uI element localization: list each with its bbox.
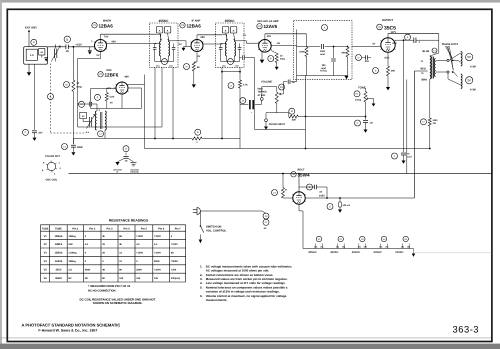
ground tone wiper [372, 104, 376, 107]
speaker ref SP2 [466, 77, 473, 84]
svg-text:A: A [225, 30, 227, 33]
phase dot pointer lines [446, 47, 454, 71]
svg-text:†1000: †1000 [154, 235, 161, 238]
wire long B- rail [69, 173, 492, 175]
wire AVC feed [78, 126, 163, 128]
control ref R1 [279, 84, 285, 90]
svg-text:5.6K: 5.6K [110, 96, 115, 99]
svg-text:†250: †250 [171, 268, 177, 271]
fuse / pilot lamp symbol [339, 202, 342, 207]
ground V4 cathode [260, 60, 265, 64]
wire V5 cathode [387, 52, 389, 66]
svg-text:IF AMP: IF AMP [192, 19, 201, 22]
speaker SP2 [454, 72, 458, 77]
capacitor .047 [32, 130, 37, 132]
wire to V4 grid net [296, 76, 298, 82]
svg-text:TUBE: TUBE [42, 228, 49, 231]
svg-text:(A): (A) [401, 245, 404, 248]
resistor 10 meg V4 [275, 53, 278, 62]
wire AVC to bus [72, 92, 74, 145]
svg-text:TONE: TONE [358, 86, 366, 90]
resistor 4.7K [239, 80, 242, 88]
svg-text:22K: 22K [292, 118, 297, 121]
svg-text:RECT: RECT [297, 169, 304, 172]
wire IF2 return down [239, 67, 241, 80]
ref F bias cap [392, 153, 398, 159]
ground phono [264, 127, 268, 130]
wire V1 screen up [100, 34, 102, 39]
svg-text:R: R [197, 131, 199, 134]
wire IF1 sec out [168, 40, 186, 42]
on-off switch blade [200, 226, 203, 233]
wire V3 plate to IF2 [203, 43, 222, 45]
winding primary [159, 42, 160, 57]
capacitor 22MF [71, 144, 76, 146]
wire IF2 bus tie [222, 71, 240, 73]
volume input terminal [260, 98, 263, 101]
wire to pot top [262, 86, 277, 88]
svg-text:†500K: †500K [171, 260, 178, 263]
wire V3 cathode [196, 52, 198, 62]
scan artifact line [415, 252, 492, 254]
svg-text:500K: 500K [85, 268, 91, 271]
svg-text:10k: 10k [154, 277, 159, 280]
svg-text:0V: 0V [97, 54, 100, 57]
wire IF2 sec out [234, 40, 246, 42]
tube V4 12AV6 det-avc-af [259, 40, 272, 53]
ref B rect bypass [307, 184, 313, 190]
svg-text:†1000: †1000 [136, 235, 143, 238]
svg-text:RESISTANCE READINGS: RESISTANCE READINGS [109, 219, 149, 223]
wire IF1 right down to bus [172, 67, 174, 138]
svg-text:NC NO CONNECTION: NC NO CONNECTION [88, 290, 116, 293]
svg-text:12VAC: 12VAC [395, 251, 403, 254]
wire plate into IF2 [221, 43, 223, 46]
dashed gang link [50, 64, 52, 134]
volume potentiometer 500K [275, 92, 278, 103]
wire AVC bypass vertical [34, 64, 36, 130]
svg-text:AT 60K: AT 60K [258, 94, 266, 97]
svg-text:1.5: 1.5 [30, 54, 34, 57]
wire screen bypass [395, 39, 414, 41]
svg-text:(A): (A) [342, 245, 345, 248]
svg-text:12BF6: 12BF6 [55, 243, 63, 246]
ref P 10 meg [268, 56, 274, 62]
ground V3 grid return [182, 48, 186, 51]
ref M [64, 82, 70, 88]
speaker 1 voice coil [461, 52, 462, 67]
svg-text:Pin 2: Pin 2 [89, 228, 96, 231]
capacitor .1 screen [413, 37, 415, 43]
svg-text:455KC: 455KC [225, 19, 236, 23]
ref A filter [322, 25, 328, 31]
wire V4 cathode [261, 51, 263, 59]
heater string bus [303, 248, 414, 250]
ref G line bypass [123, 146, 129, 152]
ground pilot [338, 210, 342, 213]
color dot alignment circle [47, 162, 55, 170]
wire cap to terminal [255, 104, 262, 106]
svg-text:mmf: mmf [321, 67, 326, 70]
svg-text:0V: 0V [373, 43, 376, 46]
svg-text:0V: 0V [198, 55, 201, 58]
wire grid cap to V1 [68, 46, 94, 48]
svg-text:TAPPED: TAPPED [258, 91, 267, 94]
svg-text:A: A [233, 30, 235, 33]
ref B grid cap [64, 36, 70, 42]
capacitor 1000 mmf [320, 44, 322, 49]
ref 12 [421, 119, 427, 125]
svg-text:D: D [358, 56, 360, 59]
ground chassis B- [115, 162, 119, 165]
wire osc coil to bus [104, 130, 106, 139]
svg-text:-1V: -1V [178, 43, 182, 46]
wire return rail [406, 80, 408, 174]
wire V4 plate to filter [265, 33, 307, 35]
tube V1 12BA6 mixer [95, 40, 107, 52]
svg-text:-: - [251, 110, 252, 114]
wire screen into IF1 [160, 34, 162, 41]
svg-text:0V: 0V [110, 101, 113, 104]
svg-text:12BA6: 12BA6 [99, 23, 114, 28]
wire AC line [200, 210, 262, 212]
svg-text:80V: 80V [393, 42, 398, 45]
resistor 50K filter [346, 47, 349, 57]
wire AC to surge resistor [282, 174, 284, 188]
wire heater stub V3 [358, 244, 360, 249]
svg-text:130: 130 [136, 277, 141, 280]
svg-text:10Meg: 10Meg [68, 235, 76, 238]
svg-text:-4.5V: -4.5V [75, 44, 82, 47]
wire heater stub V1 [315, 244, 317, 249]
ref A pilot [327, 204, 333, 210]
heater ref V4 [381, 236, 386, 241]
ref can coil [228, 59, 234, 65]
wire V3 screen up [196, 35, 198, 40]
ref 17 4.7K [228, 83, 234, 89]
wire secondary top [436, 59, 447, 61]
svg-text:†1000: †1000 [171, 243, 178, 246]
capacitor .002 [364, 55, 366, 60]
svg-text:(A): (A) [321, 245, 324, 248]
svg-text:98V: 98V [125, 76, 130, 79]
heater ref V5 [403, 236, 408, 241]
resistor 1000 ohm 1W B+ filter [428, 118, 431, 126]
wire phono tap [265, 113, 267, 119]
wire V5 plate to output transformer [388, 33, 439, 35]
oscillator coil winding 2 [105, 111, 106, 130]
wire tap line [266, 112, 289, 114]
ref can coil [162, 59, 168, 65]
svg-text:G: G [125, 148, 127, 151]
svg-text:12BF6: 12BF6 [105, 72, 119, 77]
phono input terminal [265, 119, 268, 122]
wire to 250mmf cap [333, 47, 335, 59]
capacitor 50MF audio coupling [249, 100, 251, 109]
svg-text:1meg: 1meg [355, 99, 362, 102]
svg-text:-1V: -1V [243, 34, 247, 37]
svg-text:.002: .002 [364, 60, 369, 63]
wire can bottom rail [221, 61, 240, 63]
svg-text:1000: 1000 [433, 119, 439, 122]
wire IF1 down to bus [154, 67, 156, 138]
ref N cathode [184, 64, 190, 70]
ground bypass [33, 138, 37, 141]
svg-text:90V: 90V [112, 41, 117, 44]
wiper arrow [279, 93, 283, 95]
svg-text:6.: 6. [200, 294, 203, 298]
svg-text:Pin 4: Pin 4 [124, 228, 131, 231]
capacitor .05 grid [65, 45, 67, 50]
svg-text:1000: 1000 [320, 50, 326, 53]
svg-text:89VAC: 89VAC [309, 251, 317, 254]
resistor 100K filter [305, 47, 308, 57]
wire screen into IF2 [222, 34, 227, 36]
svg-text:180K: 180K [136, 268, 142, 271]
svg-text:180: 180 [391, 70, 396, 73]
svg-text:(A): (A) [336, 245, 339, 248]
heater ref V2 [338, 236, 343, 241]
svg-text:(A): (A) [315, 245, 318, 248]
ground 10 meg [275, 67, 279, 70]
wire AF line to tone [298, 116, 366, 118]
ground V3 cathode [192, 84, 196, 87]
ref C tone cap [355, 120, 361, 126]
svg-text:1AH: 1AH [235, 65, 239, 68]
trimmer A3a [156, 27, 163, 34]
svg-text:500K: 500K [258, 87, 264, 90]
tube V2 12BF6 oscillator [116, 82, 128, 94]
resistor 5.6K osc [105, 93, 108, 102]
capacitor right lead [239, 44, 241, 48]
svg-text:† MEASURED FROM PIN 7 OF V6: † MEASURED FROM PIN 7 OF V6 [88, 285, 131, 288]
svg-text:†1000: †1000 [154, 252, 161, 255]
wire filter [297, 46, 307, 48]
speaker 2 voice coil [461, 74, 462, 89]
svg-text:N: N [186, 65, 188, 68]
svg-text:4"SP: 4"SP [470, 88, 476, 91]
ground antenna trimmer [44, 59, 48, 62]
scan edge strips [0, 0, 500, 3]
resistor 180 ohm cathode [387, 66, 390, 76]
svg-text:Pin 5: Pin 5 [141, 228, 148, 231]
AC line plug [193, 209, 197, 211]
wire cathode to osc [78, 58, 101, 60]
ref C bypass [23, 129, 29, 135]
svg-text:Pin 1: Pin 1 [72, 228, 79, 231]
svg-text:40VAC: 40VAC [352, 251, 360, 254]
svg-text:8.5V: 8.5V [385, 57, 390, 60]
ground electrolytic [71, 152, 75, 155]
svg-text:GROUND: GROUND [130, 171, 139, 174]
wire heater chain start [302, 211, 304, 249]
ref 1A osc pad [79, 101, 85, 107]
svg-text:BRN: BRN [422, 79, 428, 82]
svg-text:Pin 6: Pin 6 [158, 228, 165, 231]
wire vertical 305 [305, 76, 307, 117]
ground tone cap [364, 130, 368, 133]
trimmer A5a [222, 27, 229, 34]
svg-text:meg: meg [280, 58, 285, 61]
wire V6 plate up [298, 174, 300, 192]
svg-text:1.5Meg: 1.5Meg [68, 252, 77, 255]
T1 primary winding [430, 56, 431, 79]
wire V1 plate to IF1 [107, 43, 157, 45]
svg-text:A: A [159, 30, 161, 33]
svg-text:NC: NC [85, 277, 89, 280]
svg-text:A PHOTOFACT STANDARD NOTATION: A PHOTOFACT STANDARD NOTATION SCHEMATIC [22, 323, 121, 328]
ref 13 electrolytic [62, 144, 68, 150]
tube V3 12BA6 IF amp [191, 40, 203, 52]
wire B- return long [145, 148, 430, 150]
svg-text:†1000: †1000 [136, 252, 143, 255]
svg-text:M: M [66, 83, 68, 86]
svg-text:12BA6: 12BA6 [187, 23, 202, 28]
transformer ref T1 [432, 48, 437, 53]
svg-text:12BA6: 12BA6 [55, 235, 63, 238]
svg-text:95V: 95V [201, 36, 206, 39]
svg-text:(A): (A) [380, 245, 383, 248]
wire terminal up [261, 87, 263, 98]
wire osc injection vertical [77, 59, 79, 128]
svg-text:B: B [66, 37, 68, 41]
svg-text:-6V: -6V [277, 42, 281, 45]
svg-text:Pin 3: Pin 3 [107, 228, 114, 231]
ref on gang link [48, 94, 54, 100]
resistor 27 ohm surge [282, 188, 285, 199]
svg-text:1AC: 1AC [156, 65, 160, 68]
svg-text:12BA6: 12BA6 [55, 252, 63, 255]
winding secondary [168, 42, 169, 57]
svg-text:SWITCH ON: SWITCH ON [206, 226, 221, 229]
svg-text:BLUE: BLUE [423, 50, 430, 53]
wire to V4 grid [247, 42, 259, 44]
wire V4 plate up [264, 34, 266, 40]
tube V6 35W4 rectifier [293, 192, 305, 204]
speaker ref SP1 [466, 54, 473, 61]
T1 core [431, 57, 433, 79]
wire heater stub V5 [401, 244, 403, 249]
ref 19 [272, 190, 278, 196]
trimmer A3b [164, 27, 171, 34]
ref L2 osc coil [98, 131, 104, 137]
svg-text:550K: 550K [154, 260, 160, 263]
detector filter network dashed box [294, 21, 353, 80]
heater ref V1 [316, 236, 321, 241]
svg-text:363-3: 363-3 [453, 323, 479, 334]
svg-text:mmf: mmf [407, 155, 412, 158]
wire B- bus left [73, 138, 192, 140]
ref E screen bypass cap [405, 34, 411, 40]
wire V6 heater down [298, 204, 300, 211]
svg-text:100K: 100K [299, 51, 305, 54]
wire screen to IF1 B+ [101, 33, 157, 35]
svg-text:VOL. CONTROL: VOL. CONTROL [206, 229, 227, 232]
ref 18 audio coupling [240, 98, 246, 104]
svg-text:12AV6: 12AV6 [264, 24, 278, 29]
tube ref V1 [92, 23, 97, 28]
svg-text:32VAC: 32VAC [330, 251, 338, 254]
wire IF1 sec return [161, 67, 163, 127]
ref K osc grid resistor [95, 94, 101, 100]
tube ref V4 [257, 24, 262, 29]
svg-text:meg: meg [76, 85, 82, 88]
svg-text:45V: 45V [267, 35, 272, 38]
svg-text:PHONO INPUT: PHONO INPUT [269, 123, 286, 126]
svg-text:(A): (A) [407, 245, 410, 248]
svg-text:C: C [357, 122, 359, 125]
wire heater stub V2 [336, 244, 338, 249]
chassis ground symbol [131, 162, 137, 164]
wire to lamp [262, 211, 266, 214]
tube V5 35C5 output [381, 38, 395, 52]
svg-text:© Howard W. Sams & Co., Inc. 1: © Howard W. Sams & Co., Inc. 1957 [38, 329, 97, 333]
capacitor 250 mmf [331, 58, 336, 60]
tube ref V3 [180, 23, 185, 28]
svg-text:SP: SP [467, 78, 471, 82]
svg-text:35W4: 35W4 [55, 277, 62, 280]
heater ref V3 [360, 236, 365, 241]
wire antenna box to ground [28, 64, 30, 72]
svg-text:120: 120 [119, 277, 124, 280]
svg-text:12AV6: 12AV6 [55, 260, 63, 263]
wire grid bypass [89, 47, 91, 51]
svg-text:VOLUME: VOLUME [261, 81, 272, 84]
svg-text:TOTAL: TOTAL [320, 70, 328, 73]
capacitor .02 chassis [123, 155, 128, 157]
svg-text:SP: SP [467, 55, 471, 59]
control ref R2 [354, 91, 360, 97]
svg-text:TUBE: TUBE [55, 228, 62, 231]
svg-text:50K: 50K [341, 52, 346, 55]
wire pot bottom [276, 103, 278, 112]
wire phono shield [255, 129, 306, 131]
wire B+ rail right vertical [413, 71, 415, 198]
wire RED tap to B+ rail [414, 70, 427, 72]
svg-text:RED: RED [421, 68, 426, 71]
wire antenna to grid cap [47, 46, 65, 48]
wire B+ output 105V [305, 197, 414, 199]
wire trimmer to gnd cap [41, 55, 43, 58]
ground antenna return [27, 72, 31, 76]
winding primary [225, 42, 226, 57]
svg-text:1AH: 1AH [169, 65, 173, 68]
oscillator coil winding 1 [95, 111, 96, 130]
wire B- bus right [202, 138, 240, 140]
tube ref V2 [98, 72, 103, 77]
svg-text:100 mil: 100 mil [343, 204, 351, 207]
ref S cathode resistor [373, 68, 379, 74]
svg-text:200(est): 200(est) [171, 277, 180, 280]
wire to coupling cap [239, 88, 241, 105]
wire elbow to primary [430, 53, 439, 56]
tone potentiometer 1 meg [364, 92, 367, 103]
wire V1 cathode down [100, 52, 102, 59]
trimmer A1 box [39, 49, 45, 56]
svg-text:M: M [291, 110, 293, 113]
wire to V3 grid [186, 46, 191, 48]
ref 21 [263, 219, 269, 225]
wire V2 cathode down [121, 95, 123, 109]
wire filter bottom [297, 75, 348, 77]
tube ref V5 [377, 24, 383, 30]
svg-text:(A): (A) [358, 245, 361, 248]
capacitor .02 tone [363, 120, 368, 122]
speaker SP1 [449, 55, 457, 60]
T1 secondary winding [434, 59, 435, 77]
wire IF2 down to bus [221, 67, 223, 138]
wire wiper up [282, 82, 284, 94]
